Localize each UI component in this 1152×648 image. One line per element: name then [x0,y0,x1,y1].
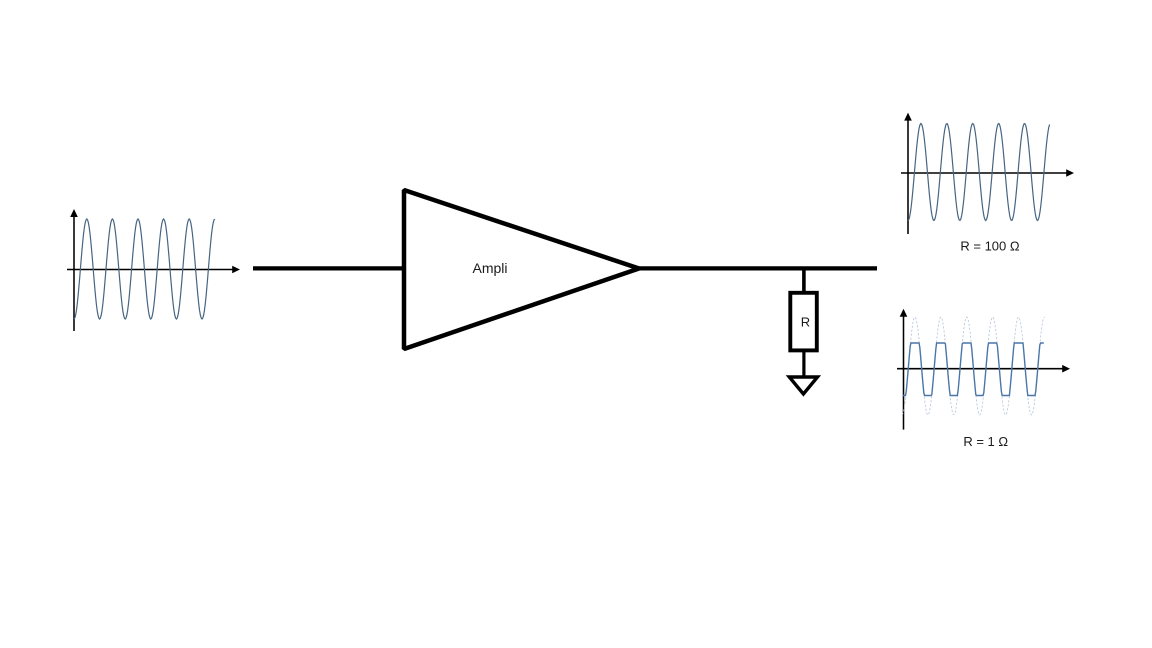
input plot x-axis [67,269,233,271]
input plot y-axis arrowhead [70,209,78,217]
wire amplifier output [636,266,877,270]
input plot x-axis arrowhead [232,266,240,274]
output sine wave R=100 [908,124,1050,221]
output plot R=1 x-axis [897,368,1063,370]
output plot R=1 x-axis arrowhead [1062,365,1070,373]
svg-text:Ampli: Ampli [472,260,507,276]
output plot R=100 x-axis [901,172,1067,174]
output plot R=100 y-axis arrowhead [904,113,912,121]
output plot R=100 x-axis arrowhead [1066,169,1074,177]
wire input to amplifier [253,266,404,270]
output plot R=1 y-axis arrowhead [900,309,908,317]
input plot y-axis [73,212,75,331]
svg-text:R = 100 Ω: R = 100 Ω [960,239,1020,254]
unclipped reference sine (dashed) [902,317,1044,415]
output plot R=100 y-axis [907,116,909,234]
ground [789,377,817,394]
svg-text:R = 1 Ω: R = 1 Ω [963,434,1008,449]
wire junction to resistor [802,268,806,292]
output plot R=1 y-axis [903,312,905,430]
op-amp U1 (Ampli) [404,190,639,349]
svg-text:R: R [801,315,810,330]
input sine wave [74,219,215,319]
resistor R [790,293,817,351]
wire resistor to ground [802,351,805,377]
clipped output wave R=1 [903,343,1044,396]
